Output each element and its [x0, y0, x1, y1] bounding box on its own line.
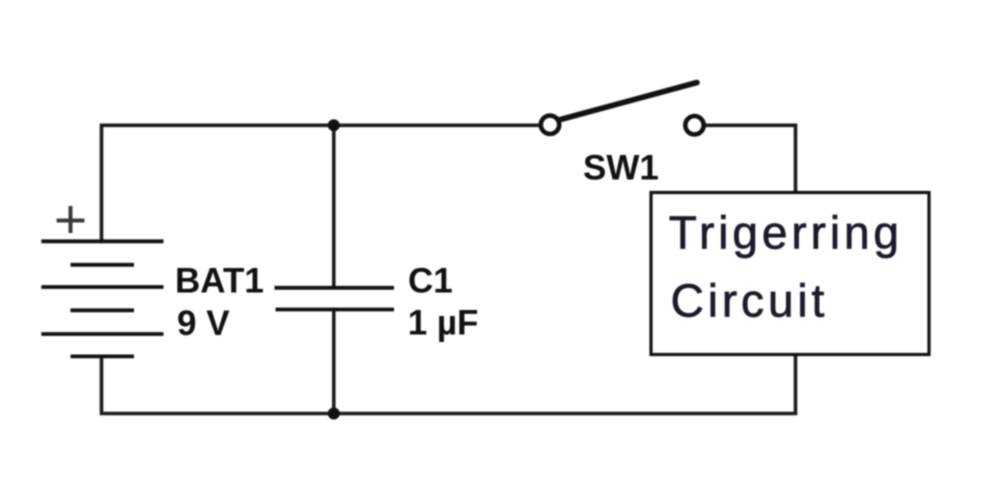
capacitor C1 [275, 288, 395, 310]
svg-text:SW1: SW1 [583, 148, 659, 187]
svg-text:BAT1: BAT1 [175, 262, 264, 301]
svg-text:Trigerring: Trigerring [669, 207, 903, 259]
battery BAT1 [41, 241, 163, 356]
switch SW1 lever [561, 83, 698, 120]
wire top rail left segment [102, 125, 540, 241]
Trigerring Circuit box [651, 193, 929, 355]
svg-text:Circuit: Circuit [671, 275, 829, 327]
wire bottom rail [102, 355, 796, 414]
switch SW1 right contact [685, 116, 703, 134]
node junction bottom [328, 408, 340, 420]
switch SW1 [541, 83, 704, 135]
wire middle vertical upper [332, 125, 336, 287]
svg-text:9 V: 9 V [177, 304, 230, 343]
switch SW1 left contact [541, 116, 559, 134]
node junction top [328, 119, 340, 131]
wire middle vertical lower [332, 310, 336, 414]
wire top rail right segment [706, 125, 796, 192]
svg-text:1 µF: 1 µF [408, 304, 479, 343]
svg-text:C1: C1 [408, 262, 453, 301]
battery plus sign [57, 206, 85, 233]
